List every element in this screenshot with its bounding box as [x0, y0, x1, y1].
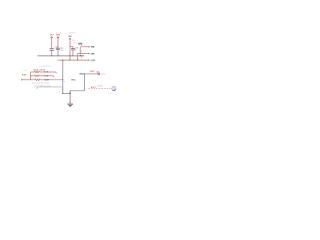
capacitor C1: [50, 49, 54, 51]
svg-text:2: 2: [81, 45, 82, 47]
teal wire segment: [79, 73, 85, 75]
center vertical wire: [62, 60, 64, 93]
junction C1/bus: [51, 55, 52, 56]
svg-text:tp: tp: [48, 85, 50, 88]
svg-text:LED_A: LED_A: [33, 69, 39, 72]
svg-text:1u: 1u: [75, 50, 77, 52]
svg-text:VDDA: VDDA: [56, 33, 61, 36]
label hook row2: [52, 76, 55, 77]
wire C3 top jog: [70, 46, 73, 48]
svg-text:pwr: pwr: [91, 62, 95, 64]
svg-text:10K: 10K: [44, 72, 49, 74]
resistor R2: [34, 75, 39, 77]
resistor R1: [34, 71, 39, 73]
pin wire row1: [80, 46, 89, 48]
junction row2: [80, 53, 81, 54]
wire P1 down to C1: [51, 36, 53, 48]
svg-text:match: match: [108, 92, 113, 95]
pin wire row3: [58, 59, 89, 61]
junction node: [70, 93, 71, 94]
power symbol P1 (bar): [51, 36, 53, 38]
capacitor C3: [71, 49, 75, 50]
junction R3/vertical: [62, 79, 63, 80]
svg-text:SWCLK: SWCLK: [91, 47, 96, 49]
power symbol P2 (bar): [57, 36, 59, 38]
svg-text:330R: 330R: [44, 80, 49, 82]
label hook row1: [55, 72, 58, 73]
red wire to test point: [85, 73, 98, 75]
pin tick R3 left: [20, 79, 23, 80]
wire R2 right: [40, 75, 53, 77]
svg-text:SWDIO: SWDIO: [91, 53, 96, 55]
gray annotation line: [37, 86, 63, 88]
wire P2 down to C2: [57, 36, 59, 48]
wire R3 right: [41, 79, 63, 81]
svg-text:10K: 10K: [44, 76, 49, 78]
wire C1 to bus: [51, 50, 53, 56]
antenna symbol A1: [112, 86, 116, 90]
junction P3/bus: [69, 55, 70, 56]
bottom horizontal wire: [63, 92, 70, 94]
svg-text:nc: nc: [63, 81, 65, 83]
svg-text:VBAT: VBAT: [89, 70, 95, 73]
dashed wire to antenna: [88, 87, 111, 89]
svg-text:R pull 10K 5%: R pull 10K 5%: [40, 66, 51, 68]
junction bottom-left: [62, 93, 63, 94]
wire R2 left: [30, 75, 34, 77]
left vertical R1-R3: [29, 72, 31, 80]
junction C3/bus: [72, 55, 73, 56]
svg-text:3: 3: [81, 57, 82, 59]
test point TP1: [98, 73, 100, 75]
wire R1 left: [30, 71, 34, 73]
wire R3 left: [22, 79, 35, 81]
svg-text:100nF16: 100nF16: [69, 33, 77, 35]
junction C2/bus: [57, 55, 58, 56]
svg-text:ref: ref: [92, 80, 96, 82]
pin wire row2: [77, 53, 89, 55]
svg-text:100n: 100n: [60, 50, 64, 52]
svg-text:4: 4: [81, 51, 82, 53]
junction row3/right vertical: [77, 60, 78, 61]
pin diamond row2: [88, 53, 90, 55]
junction row3/P3: [69, 60, 70, 61]
wire R1 right: [40, 71, 56, 73]
ground bus wire: [37, 55, 77, 57]
svg-text:2.4GHz: 2.4GHz: [97, 86, 103, 88]
wire row2-row3 vertical: [76, 54, 78, 61]
pin diamond row3: [88, 59, 90, 61]
wire P3 down to row3 node: [69, 41, 71, 61]
pin diamond row1: [88, 46, 90, 48]
junction row3/center vertical: [62, 60, 63, 61]
svg-text:ext1: ext1: [23, 69, 28, 72]
right vertical wire: [84, 74, 86, 91]
gray stub: [36, 87, 38, 89]
red wire down to ground: [69, 95, 71, 104]
node vertical link: [69, 91, 71, 95]
red junction above ground: [69, 102, 70, 103]
wire row1-row2 vertical: [79, 47, 81, 54]
resistor R3: [35, 79, 40, 81]
power symbol P3 (red arrow down): [69, 38, 71, 40]
wire C3 to bus: [72, 50, 74, 56]
capacitor C2: [56, 48, 60, 49]
mid horizontal wire: [70, 90, 85, 92]
wire C2 to bus: [57, 49, 59, 55]
ground: [67, 104, 73, 106]
